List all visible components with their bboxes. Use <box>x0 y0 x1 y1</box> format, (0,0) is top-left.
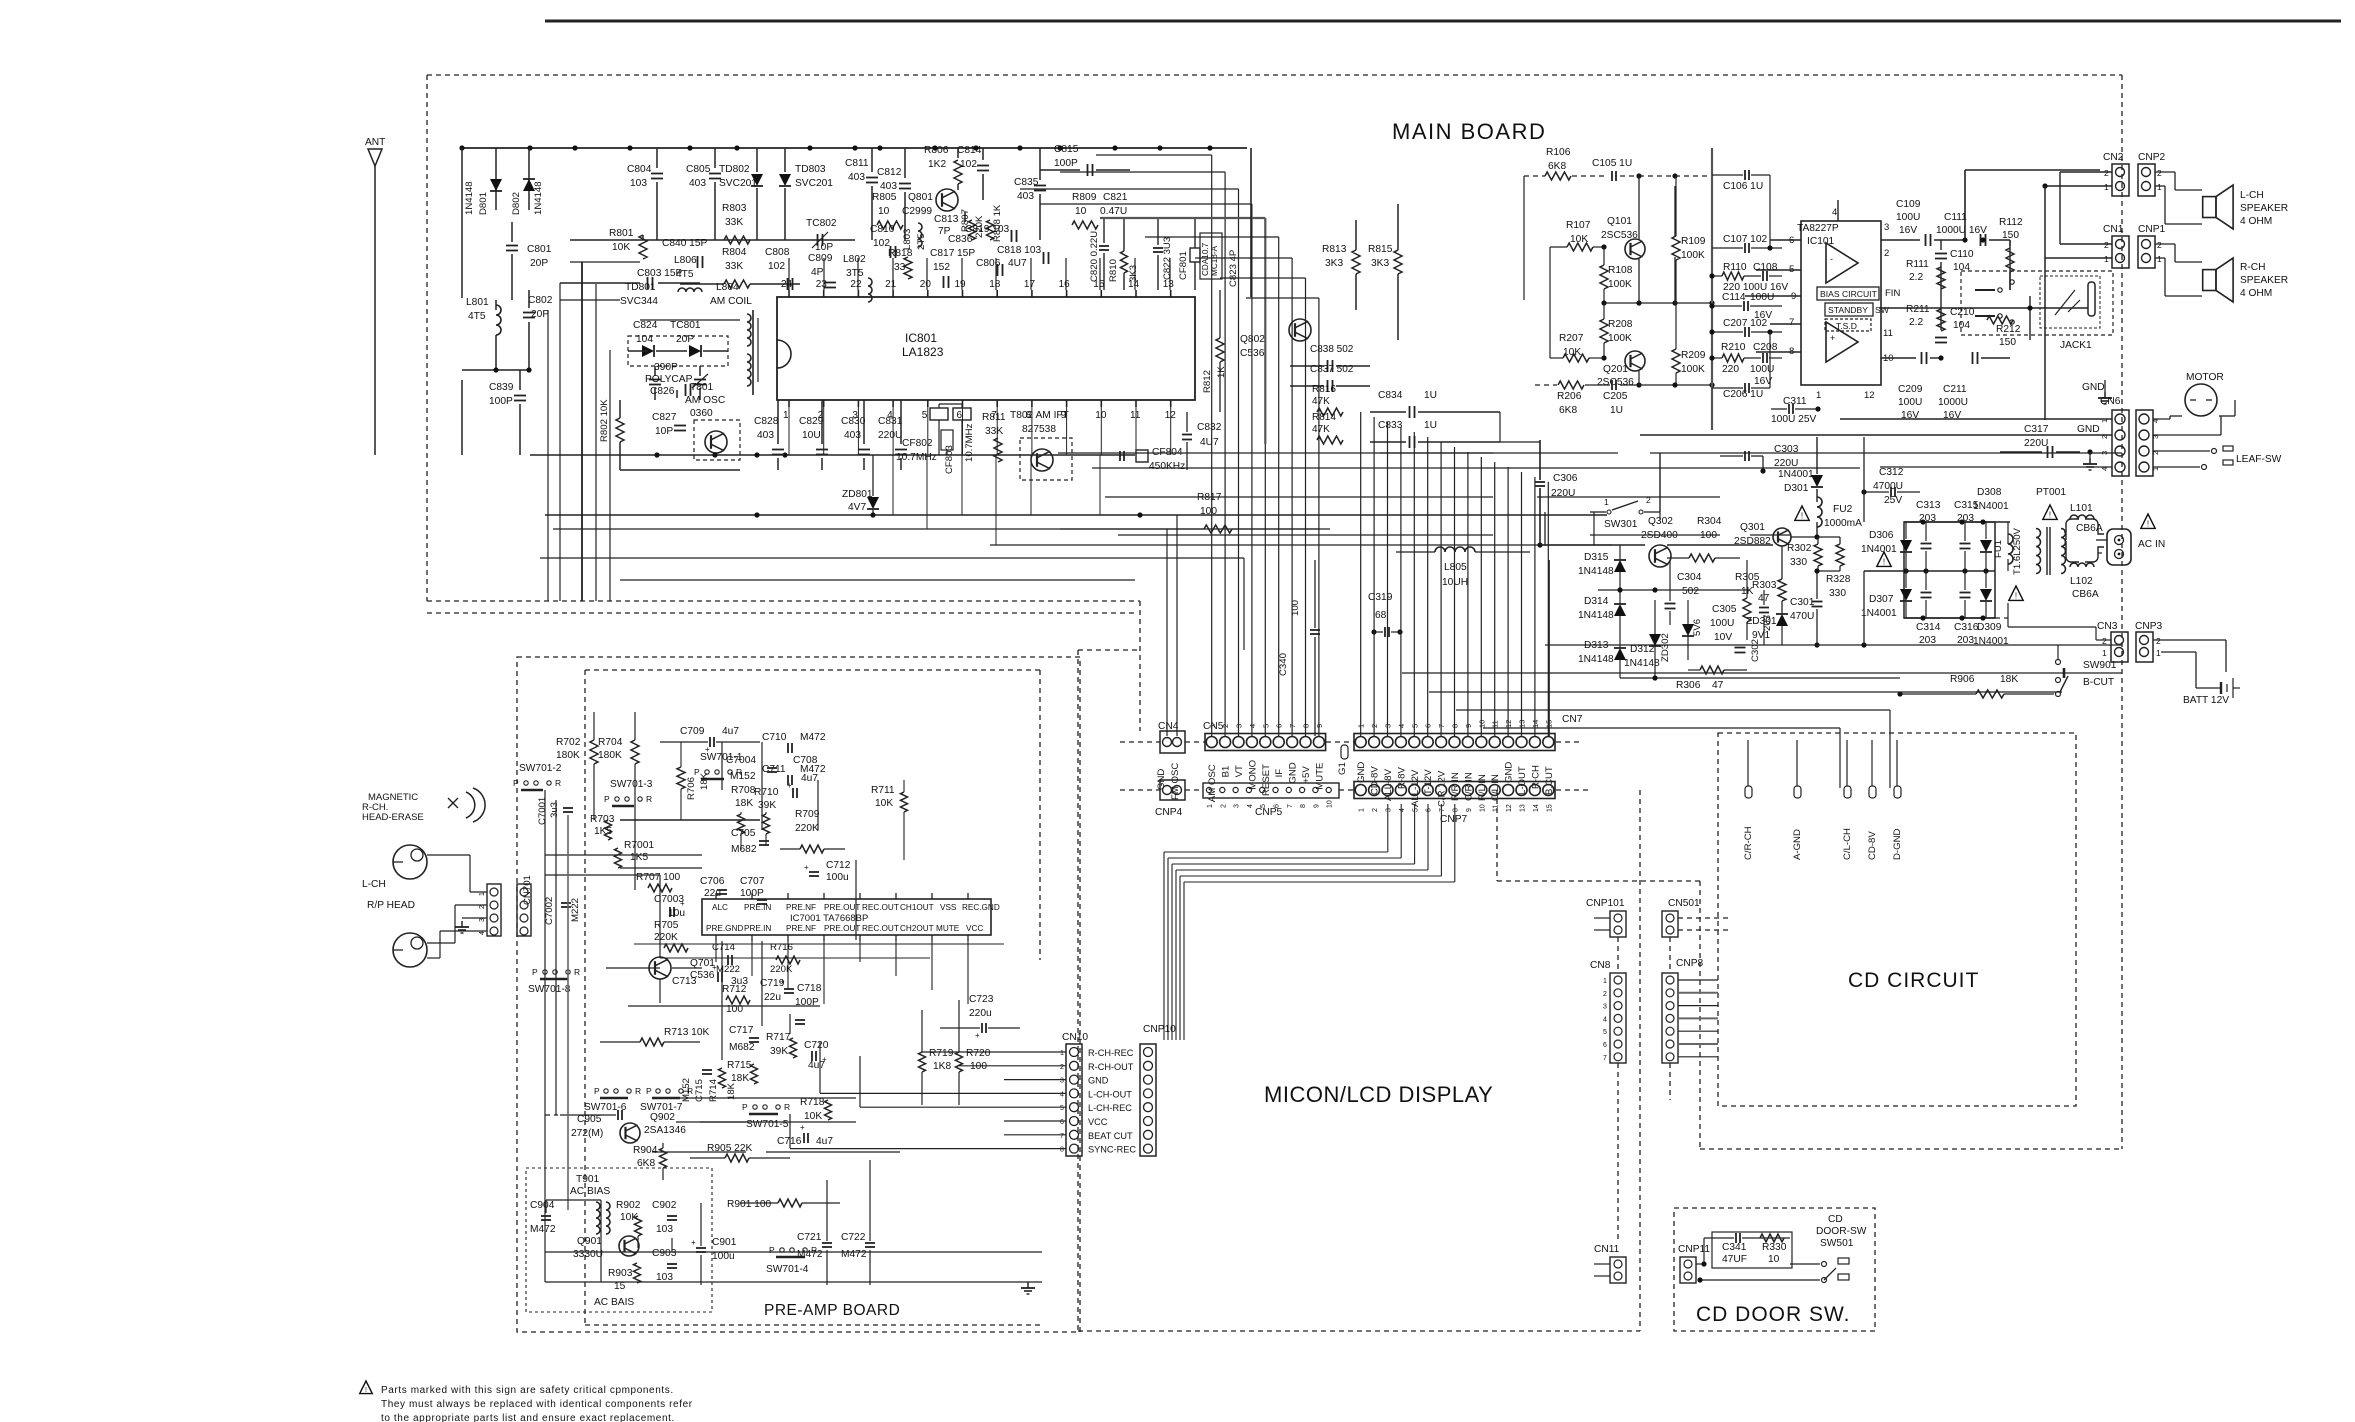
svg-text:C208: C208 <box>1753 342 1778 353</box>
svg-text:100U: 100U <box>1750 364 1774 375</box>
MICON/LCD DISPLAY dashed outline <box>1077 650 1079 1331</box>
svg-text:M222: M222 <box>570 898 581 922</box>
svg-text:C840 15P: C840 15P <box>662 238 708 249</box>
svg-text:4U7: 4U7 <box>1200 437 1219 448</box>
svg-text:C302: C302 <box>1750 639 1761 662</box>
svg-text:10: 10 <box>1768 1254 1780 1265</box>
svg-text:R716: R716 <box>770 942 793 953</box>
svg-text:11: 11 <box>1130 410 1141 421</box>
svg-text:P: P <box>532 967 538 977</box>
svg-text:R814: R814 <box>1312 412 1336 423</box>
jack contacts <box>1975 289 1995 291</box>
svg-text:3330U: 3330U <box>573 1249 603 1260</box>
svg-text:6: 6 <box>1426 808 1433 812</box>
svg-text:6K8: 6K8 <box>1548 161 1566 172</box>
svg-text:102: 102 <box>768 261 785 272</box>
svg-text:C312: C312 <box>1879 467 1904 478</box>
svg-text:100K: 100K <box>1608 333 1632 344</box>
svg-text:4: 4 <box>1603 1016 1607 1023</box>
svg-text:M682: M682 <box>731 844 757 855</box>
svg-text:C838 502: C838 502 <box>1310 344 1354 355</box>
transistor Q902 2SA1346 <box>620 1123 640 1143</box>
svg-text:39K: 39K <box>770 1046 788 1057</box>
svg-text:TD802: TD802 <box>719 164 750 175</box>
svg-text:R: R <box>784 1102 790 1112</box>
svg-text:R112: R112 <box>1999 217 2023 228</box>
svg-text:C902: C902 <box>652 1200 677 1211</box>
wires to R speaker <box>2155 243 2175 245</box>
svg-text:5: 5 <box>1412 808 1419 812</box>
connector CNP6 <box>2136 410 2153 476</box>
svg-text:7: 7 <box>1603 1055 1607 1062</box>
svg-text:L804: L804 <box>716 282 739 293</box>
svg-text:3: 3 <box>1386 808 1393 812</box>
svg-text:C837 502: C837 502 <box>1310 364 1354 375</box>
svg-text:R815: R815 <box>1368 244 1393 255</box>
svg-text:1K5: 1K5 <box>630 852 648 863</box>
svg-text:G1: G1 <box>1337 762 1348 775</box>
long horizontal nets to right <box>1402 672 2122 674</box>
svg-text:18K: 18K <box>2000 674 2018 685</box>
svg-text:C802: C802 <box>528 295 553 306</box>
svg-text:+5V: +5V <box>1301 766 1312 784</box>
svg-text:C717: C717 <box>729 1025 754 1036</box>
svg-text:L801: L801 <box>466 297 489 308</box>
svg-text:3: 3 <box>1884 222 1889 233</box>
svg-text:R-CH-REC: R-CH-REC <box>1088 1048 1134 1058</box>
svg-text:104: 104 <box>636 334 653 345</box>
svg-text:D309: D309 <box>1977 622 2002 633</box>
svg-text:3: 3 <box>1234 804 1241 808</box>
leaf switch <box>2153 450 2210 452</box>
IC801 pin stubs bottom <box>788 400 790 407</box>
wire left verticals <box>461 148 463 298</box>
svg-text:2: 2 <box>2104 240 2109 250</box>
svg-text:R904: R904 <box>633 1145 658 1156</box>
svg-text:3: 3 <box>852 410 858 421</box>
svg-text:C110: C110 <box>1950 249 1974 260</box>
svg-text:+: + <box>680 899 685 908</box>
filter CDA10.7 MC18-A <box>1200 233 1222 279</box>
svg-text:R/P HEAD: R/P HEAD <box>367 900 415 911</box>
svg-text:R330: R330 <box>1762 1242 1787 1253</box>
svg-text:10K: 10K <box>875 798 893 809</box>
svg-text:R207: R207 <box>1559 333 1584 344</box>
svg-text:C811: C811 <box>845 158 869 169</box>
svg-text:C804: C804 <box>627 164 652 175</box>
svg-text:C905: C905 <box>577 1114 602 1125</box>
svg-text:1U: 1U <box>1610 405 1623 416</box>
svg-text:SW501: SW501 <box>1820 1238 1854 1249</box>
svg-text:C813: C813 <box>934 214 959 225</box>
op-amp triangle upper <box>1826 243 1858 283</box>
svg-text:2: 2 <box>1220 804 1227 808</box>
svg-text:C340: C340 <box>1278 653 1289 676</box>
svg-text:R719: R719 <box>929 1048 954 1059</box>
svg-text:D314: D314 <box>1584 596 1609 607</box>
svg-text:2: 2 <box>2156 636 2161 646</box>
svg-text:L102: L102 <box>2070 576 2093 587</box>
svg-text:C106 1U: C106 1U <box>1723 181 1763 192</box>
svg-text:7P: 7P <box>938 226 951 237</box>
svg-text:SW701-6: SW701-6 <box>584 1102 627 1113</box>
svg-text:C/R-CH: C/R-CH <box>1743 826 1754 860</box>
svg-text:1: 1 <box>1816 390 1821 401</box>
svg-text:C718: C718 <box>797 983 822 994</box>
svg-text:403: 403 <box>848 172 865 183</box>
svg-text:18: 18 <box>989 279 1001 290</box>
svg-text:SW: SW <box>1875 305 1890 315</box>
svg-text:R208: R208 <box>1608 319 1633 330</box>
svg-text:C820 0.22U: C820 0.22U <box>1089 231 1100 282</box>
svg-text:4: 4 <box>1832 207 1837 218</box>
svg-text:R902: R902 <box>616 1200 641 1211</box>
svg-text:R304: R304 <box>1697 516 1722 527</box>
svg-text:R206: R206 <box>1557 391 1582 402</box>
svg-text:C901: C901 <box>712 1237 737 1248</box>
svg-text:L-CH-OUT: L-CH-OUT <box>1088 1089 1132 1099</box>
svg-text:CNP4: CNP4 <box>1155 807 1183 818</box>
svg-text:CH2OUT: CH2OUT <box>900 924 934 933</box>
svg-text:VCC: VCC <box>966 924 983 933</box>
svg-text:PRE.IN: PRE.IN <box>744 903 771 912</box>
svg-text:+: + <box>691 1238 696 1247</box>
svg-text:FU2: FU2 <box>1833 504 1853 515</box>
svg-text:SVC344: SVC344 <box>620 296 658 307</box>
wires CN2 CN1 to amp <box>2060 171 2112 173</box>
braid CNP7 to CN10 <box>1387 804 1389 852</box>
svg-text:P: P <box>513 778 519 788</box>
rect around c341 <box>1712 1232 1792 1268</box>
L-CH speaker <box>2203 197 2216 218</box>
svg-text:2: 2 <box>2157 240 2162 250</box>
svg-text:LA1823: LA1823 <box>902 345 944 359</box>
svg-text:180K: 180K <box>556 750 580 761</box>
wires IC101 left pins <box>1770 239 1801 241</box>
svg-text:SVC201: SVC201 <box>719 178 757 189</box>
svg-text:203: 203 <box>1919 635 1936 646</box>
preamp bottom rail <box>545 1281 1042 1283</box>
svg-text:220U: 220U <box>2024 438 2048 449</box>
svg-text:100: 100 <box>1200 506 1217 517</box>
svg-text:450KHz: 450KHz <box>1149 461 1185 472</box>
svg-text:14: 14 <box>1533 804 1540 812</box>
svg-text:CN7: CN7 <box>1562 714 1583 725</box>
CD DOOR SW dashed box <box>1674 1208 1875 1331</box>
svg-text:10u: 10u <box>668 908 685 919</box>
svg-text:D313: D313 <box>1584 640 1609 651</box>
svg-text:C314: C314 <box>1916 622 1941 633</box>
svg-text:TD801: TD801 <box>625 282 656 293</box>
svg-text:0.47U: 0.47U <box>1100 206 1127 217</box>
svg-text:102: 102 <box>960 159 977 170</box>
svg-text:17: 17 <box>1024 279 1036 290</box>
svg-text:TC801: TC801 <box>670 320 701 331</box>
svg-text:4u7: 4u7 <box>816 1136 833 1147</box>
svg-text:CN11: CN11 <box>1594 1244 1620 1255</box>
svg-text:1K8: 1K8 <box>933 1061 951 1072</box>
svg-text:C805: C805 <box>686 164 711 175</box>
CD CIRCUIT dashed box <box>1718 733 2076 1106</box>
wire standby <box>1879 307 2088 309</box>
svg-text:2: 2 <box>1372 808 1379 812</box>
standby box <box>1825 303 1873 316</box>
svg-text:403: 403 <box>757 430 774 441</box>
svg-text:T801: T801 <box>690 382 714 393</box>
R-CH speaker <box>2203 270 2216 291</box>
svg-text:C812: C812 <box>877 167 902 178</box>
svg-text:9: 9 <box>1466 808 1473 812</box>
svg-text:5: 5 <box>922 410 928 421</box>
svg-text:MUTE: MUTE <box>1314 763 1325 790</box>
svg-text:SPEAKER: SPEAKER <box>2240 275 2288 286</box>
svg-text:C707: C707 <box>740 876 765 887</box>
svg-text:4U7: 4U7 <box>1008 258 1027 269</box>
svg-text:D-GND: D-GND <box>1892 828 1903 860</box>
svg-text:R108: R108 <box>1608 265 1633 276</box>
transistor Q701 C536 <box>649 957 671 979</box>
svg-text:R106: R106 <box>1546 147 1571 158</box>
wire bottom rail <box>1639 384 1712 386</box>
svg-text:LEAF-SW: LEAF-SW <box>2236 454 2282 465</box>
svg-text:POLYCAP: POLYCAP <box>645 374 693 385</box>
svg-text:220K: 220K <box>795 823 819 834</box>
svg-text:1: 1 <box>2104 254 2109 264</box>
battery BATT 12V <box>2153 639 2226 641</box>
svg-text:R805: R805 <box>872 192 897 203</box>
dashed verticals micon column <box>1617 937 1619 973</box>
svg-text:C711: C711 <box>762 764 786 775</box>
resistor R807 220K <box>964 212 966 222</box>
svg-text:MONO: MONO <box>1247 760 1258 790</box>
svg-text:23: 23 <box>816 279 828 290</box>
svg-text:PRE.GND: PRE.GND <box>706 924 743 933</box>
svg-text:21: 21 <box>885 279 897 290</box>
wire top rail <box>462 147 1247 149</box>
svg-text:403: 403 <box>689 178 706 189</box>
svg-text:R810: R810 <box>1108 259 1119 282</box>
svg-text:C823 4P: C823 4P <box>1228 250 1239 287</box>
IC801 box <box>777 297 1195 400</box>
svg-text:C205: C205 <box>1603 391 1628 402</box>
svg-text:CDA10.7: CDA10.7 <box>1201 242 1210 276</box>
svg-text:Q902: Q902 <box>650 1112 675 1123</box>
svg-text:18K: 18K <box>699 772 710 790</box>
wire r106 rail <box>1524 175 1545 177</box>
svg-text:6K8: 6K8 <box>637 1158 655 1169</box>
svg-text:2: 2 <box>818 410 824 421</box>
svg-text:2SA1346: 2SA1346 <box>644 1125 686 1136</box>
svg-text:100U: 100U <box>1750 292 1774 303</box>
svg-text:103: 103 <box>656 1224 673 1235</box>
IC7001 pins <box>715 893 717 899</box>
svg-text:403: 403 <box>1017 191 1034 202</box>
svg-text:CF801: CF801 <box>1178 251 1189 280</box>
svg-text:220u: 220u <box>969 1008 992 1019</box>
svg-text:C211: C211 <box>1943 384 1967 395</box>
svg-text:R111: R111 <box>1906 259 1929 270</box>
svg-text:10.7MHz: 10.7MHz <box>896 452 937 463</box>
svg-text:C313: C313 <box>1916 500 1941 511</box>
svg-text:R: R <box>646 794 652 804</box>
svg-text:16V: 16V <box>1899 225 1917 236</box>
resistor R328 330 <box>1836 544 1844 566</box>
svg-text:AM OSC: AM OSC <box>685 395 725 406</box>
svg-text:220U: 220U <box>878 430 902 441</box>
svg-text:10: 10 <box>1327 800 1334 808</box>
svg-text:4: 4 <box>1399 808 1406 812</box>
svg-text:C317: C317 <box>2024 424 2049 435</box>
svg-text:R718: R718 <box>800 1097 825 1108</box>
svg-text:C111: C111 <box>1944 212 1967 223</box>
TSD box <box>1825 319 1871 331</box>
svg-text:C828: C828 <box>754 416 779 427</box>
svg-text:4 OHM: 4 OHM <box>2240 216 2272 227</box>
vertical bus CN7 wires <box>1360 412 1362 736</box>
svg-text:C716: C716 <box>777 1136 802 1147</box>
svg-text:11: 11 <box>1493 805 1500 812</box>
svg-text:4u7: 4u7 <box>722 726 739 737</box>
svg-text:4T5: 4T5 <box>676 269 694 280</box>
svg-text:+: + <box>712 963 717 972</box>
svg-text:100u: 100u <box>826 872 849 883</box>
svg-text:Q201: Q201 <box>1603 364 1628 375</box>
transistor Q901 3330U <box>619 1236 639 1256</box>
svg-text:10P: 10P <box>655 426 673 437</box>
svg-text:1: 1 <box>2156 648 2161 658</box>
svg-text:R715: R715 <box>727 1060 752 1071</box>
svg-text:B-CUT: B-CUT <box>2083 677 2114 688</box>
svg-text:1U: 1U <box>1424 390 1437 401</box>
svg-text:CN10: CN10 <box>1062 1032 1088 1043</box>
svg-text:+: + <box>800 1123 805 1132</box>
svg-text:3u3: 3u3 <box>549 802 560 818</box>
svg-text:C2999: C2999 <box>902 206 932 217</box>
svg-text:1N4148: 1N4148 <box>464 181 475 215</box>
svg-text:15: 15 <box>1546 804 1553 812</box>
svg-text:CD DOOR SW.: CD DOOR SW. <box>1696 1303 1851 1326</box>
svg-text:CNP10: CNP10 <box>1143 1024 1176 1035</box>
svg-text:47: 47 <box>1712 680 1724 691</box>
svg-text:1: 1 <box>1207 804 1214 808</box>
svg-text:10: 10 <box>878 206 890 217</box>
svg-text:R306: R306 <box>1676 680 1701 691</box>
svg-text:CB6A: CB6A <box>2072 589 2099 600</box>
svg-text:8: 8 <box>1300 804 1307 808</box>
svg-text:R809: R809 <box>1072 192 1097 203</box>
svg-text:1: 1 <box>1604 497 1609 507</box>
svg-text:4: 4 <box>887 410 893 421</box>
svg-text:RESET: RESET <box>1261 764 1272 796</box>
svg-text:C311: C311 <box>1783 396 1807 407</box>
AC BIAS dashed box <box>526 1168 712 1312</box>
svg-text:R712: R712 <box>722 984 747 995</box>
svg-text:CNP2: CNP2 <box>2138 152 2166 163</box>
svg-text:C722: C722 <box>841 1232 866 1243</box>
svg-text:20P: 20P <box>676 334 694 345</box>
svg-text:1N4148: 1N4148 <box>1578 566 1614 577</box>
svg-text:1K2: 1K2 <box>928 159 946 170</box>
svg-text:33K: 33K <box>985 426 1003 437</box>
svg-text:47K: 47K <box>1312 396 1330 407</box>
svg-text:330: 330 <box>1790 557 1807 568</box>
svg-text:203: 203 <box>1957 513 1974 524</box>
svg-text:39K: 39K <box>758 800 776 811</box>
svg-text:M472: M472 <box>530 1224 556 1235</box>
svg-text:R706: R706 <box>686 777 697 800</box>
svg-text:330: 330 <box>1829 588 1846 599</box>
svg-text:P: P <box>646 1086 652 1096</box>
svg-text:C/L-CH: C/L-CH <box>1842 828 1853 860</box>
wires head to connector <box>427 854 470 856</box>
svg-text:7: 7 <box>1060 1133 1064 1140</box>
svg-text:C305: C305 <box>1712 604 1737 615</box>
svg-text:1: 1 <box>783 410 789 421</box>
svg-text:C710: C710 <box>762 732 787 743</box>
svg-text:220K: 220K <box>654 932 678 943</box>
svg-text:7: 7 <box>991 410 997 421</box>
svg-text:19: 19 <box>955 279 967 290</box>
svg-text:103: 103 <box>630 178 647 189</box>
svg-text:8: 8 <box>1453 808 1460 812</box>
svg-text:T.S.D: T.S.D <box>1836 321 1857 331</box>
svg-text:100U: 100U <box>1898 397 1922 408</box>
svg-text:HEAD-ERASE: HEAD-ERASE <box>362 812 424 823</box>
svg-text:M472: M472 <box>800 732 826 743</box>
vertical bus CN5 wires <box>1211 424 1213 736</box>
svg-text:1: 1 <box>1359 808 1366 812</box>
wire gnd rail left <box>462 369 530 371</box>
svg-text:VSS: VSS <box>940 903 957 912</box>
svg-text:22: 22 <box>850 279 862 290</box>
svg-text:2: 2 <box>2104 168 2109 178</box>
svg-text:CD CIRCUIT: CD CIRCUIT <box>1848 969 1979 992</box>
svg-text:2.2: 2.2 <box>1909 272 1923 283</box>
svg-text:1: 1 <box>2157 182 2162 192</box>
svg-text:B1: B1 <box>1221 766 1232 778</box>
svg-text:C301: C301 <box>1790 597 1815 608</box>
svg-text:C7004: C7004 <box>726 755 756 766</box>
svg-text:C109: C109 <box>1896 199 1921 210</box>
switch SW901 B-CUT <box>2056 660 2061 665</box>
transistor Q802 C536 <box>1289 319 1311 341</box>
vertical bus left of IC801 <box>581 262 583 601</box>
svg-text:D306: D306 <box>1869 530 1894 541</box>
svg-text:1N4148: 1N4148 <box>1578 654 1614 665</box>
svg-text:7: 7 <box>1789 317 1794 328</box>
svg-text:R802 10K: R802 10K <box>599 399 610 442</box>
svg-text:C833: C833 <box>1378 420 1403 431</box>
svg-text:!: ! <box>1883 557 1885 566</box>
wire mid horizontals <box>560 299 620 301</box>
transistor Q801 C2999 <box>936 189 958 211</box>
svg-text:1N4148: 1N4148 <box>533 181 544 215</box>
PRE-AMP BOARD dashed outline inner <box>585 669 1040 671</box>
svg-text:SVC201: SVC201 <box>795 178 833 189</box>
jack L-CH <box>393 845 427 879</box>
svg-text:6: 6 <box>1603 1042 1607 1049</box>
svg-text:1: 1 <box>2102 648 2107 658</box>
svg-text:100K: 100K <box>1608 279 1632 290</box>
svg-text:+: + <box>804 863 809 872</box>
svg-text:100K: 100K <box>1681 250 1705 261</box>
JACK1 dashed box <box>1961 271 2113 335</box>
wires motor to CNP6 <box>2153 418 2170 420</box>
wires from bottom pins <box>788 407 790 455</box>
wires power buses <box>1545 644 1817 646</box>
wires from top pins <box>788 258 790 290</box>
svg-text:R302: R302 <box>1787 543 1812 554</box>
